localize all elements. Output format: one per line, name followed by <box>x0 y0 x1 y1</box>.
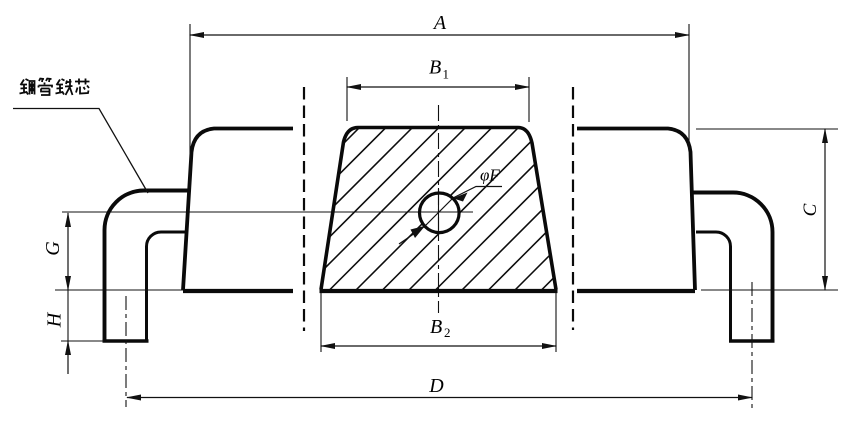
left break dashed line <box>303 87 305 331</box>
dim B1 right arrow <box>515 84 530 90</box>
dim C bottom extension line <box>701 289 838 291</box>
dim G top arrow <box>65 212 71 227</box>
dim H outside arrow below <box>65 340 71 355</box>
left pipe outer edge <box>105 191 190 342</box>
trapezoid vertical centerline <box>438 105 440 313</box>
char 铁 <box>56 79 73 95</box>
right body bottom edge <box>577 289 695 293</box>
dim B2 right extension line <box>555 293 557 352</box>
left body top edge <box>183 129 293 291</box>
dim C top arrow <box>822 128 828 143</box>
dim B1 right extension line <box>528 77 530 122</box>
right break dashed line <box>572 87 574 330</box>
svg-text:C: C <box>800 203 821 216</box>
dim G bottom arrow <box>65 276 71 291</box>
dim H outside tail <box>67 341 69 374</box>
phiF lower arrow <box>411 226 426 238</box>
left pipe vertical centerline <box>125 296 127 407</box>
dim B1 left arrow <box>346 84 361 90</box>
dim B2 left extension line <box>320 293 322 352</box>
dim B2 right arrow <box>542 343 557 349</box>
char 钢 <box>20 79 35 95</box>
svg-text:B: B <box>430 316 442 338</box>
left pipe inner edge <box>147 232 188 341</box>
dim H line <box>67 290 69 341</box>
hole circle phi F <box>420 193 460 233</box>
dim C top extension line <box>696 128 838 130</box>
phiF leader <box>453 187 502 199</box>
right pipe vertical centerline <box>751 282 753 409</box>
right pipe inner edge <box>696 232 731 341</box>
svg-text:1: 1 <box>443 67 450 82</box>
centerline solid through hole <box>438 188 440 237</box>
dim C line <box>824 129 826 290</box>
dim A right extension line <box>688 24 690 150</box>
dim A line <box>190 34 689 36</box>
dim A left arrow <box>189 32 204 38</box>
dim G/H extension line at y290 <box>55 289 183 291</box>
svg-text:φF: φF <box>480 166 500 185</box>
dim A right arrow <box>675 32 690 38</box>
pipe horizontal centerline <box>62 211 473 213</box>
dim A left extension line <box>189 24 191 188</box>
right pipe outer edge <box>691 193 773 342</box>
svg-text:2: 2 <box>444 325 451 340</box>
svg-text:A: A <box>432 12 447 34</box>
svg-text:G: G <box>42 241 64 256</box>
char 芯 <box>75 79 90 94</box>
right body top edge <box>577 129 695 291</box>
trapezoid bottom edge <box>320 289 558 293</box>
label leader line <box>13 109 148 194</box>
dim G line <box>67 213 69 290</box>
label text 钢管铁芯 (drawn strokes) <box>20 78 90 95</box>
dim B2 left arrow <box>320 343 335 349</box>
dim C bottom arrow <box>822 276 828 291</box>
dim B1 left extension line <box>346 77 348 121</box>
right pipe bottom end <box>729 339 775 343</box>
dim B2 line <box>321 345 556 347</box>
svg-text:D: D <box>428 375 444 397</box>
svg-text:H: H <box>44 311 66 328</box>
dim H extension line at y341 <box>61 340 104 342</box>
dim D right arrow <box>738 395 753 401</box>
trapezoid outline <box>321 128 556 290</box>
left body bottom edge <box>183 289 293 293</box>
phiF upper arrow <box>453 193 468 202</box>
hatching of trapezoid cross-section <box>171 127 705 290</box>
dim D left arrow <box>126 395 141 401</box>
dim B1 line <box>347 86 529 88</box>
char 管 <box>39 78 53 95</box>
phiF lower tail <box>399 227 425 245</box>
left pipe bottom end <box>103 339 149 343</box>
svg-text:B: B <box>429 57 441 79</box>
hole white fill <box>420 193 460 233</box>
dim D line <box>127 397 752 399</box>
phiF diameter line through hole <box>425 198 454 227</box>
